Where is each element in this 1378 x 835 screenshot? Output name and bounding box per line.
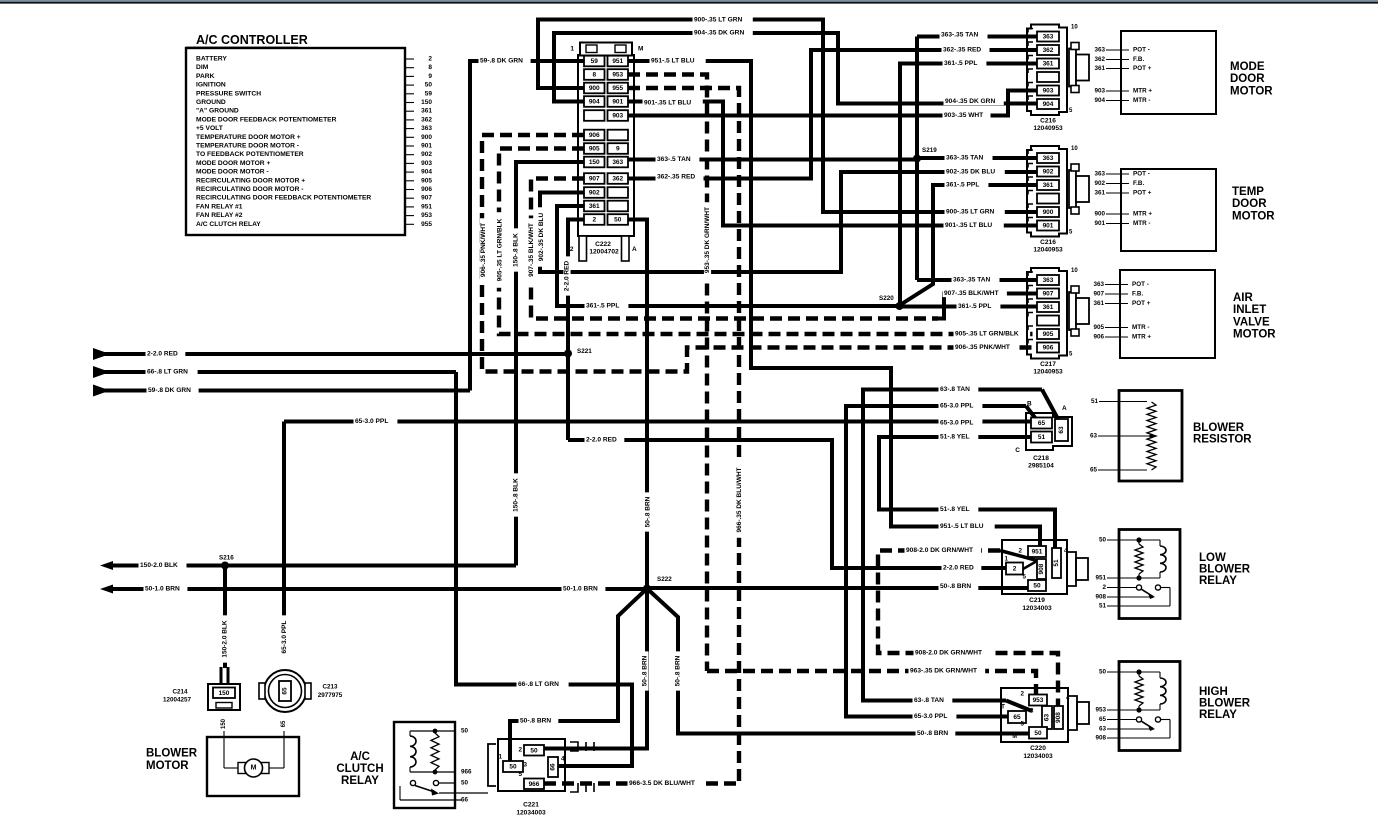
wire label 363-.35 TAN [952, 276, 1000, 283]
svg-text:INLET: INLET [1233, 304, 1266, 316]
svg-text:50: 50 [509, 764, 517, 771]
top blue border bar [0, 0, 1378, 2]
connector C221 pin 50 (2) [524, 745, 544, 756]
wire 906-.35 PNK/WHT dashed C222 to C217 [482, 135, 1039, 372]
svg-text:12040953: 12040953 [1033, 369, 1063, 376]
connector C222 pin row 59/951 [584, 56, 605, 67]
wire 966-.35 DK BLU/WHT dashed from C222 pin 955 [628, 88, 739, 784]
connector C222 pin row 2/50 [584, 214, 605, 225]
svg-text:1: 1 [570, 46, 574, 53]
wire label 362-.35 RED [656, 173, 704, 180]
svg-text:903: 903 [1094, 88, 1105, 95]
svg-text:AIR: AIR [1233, 292, 1254, 304]
wire label 2-2.0 RED [146, 350, 186, 357]
svg-text:966-.35 DK BLU/WHT: 966-.35 DK BLU/WHT [736, 467, 743, 532]
wire label 50-.8 BRN [916, 730, 956, 737]
svg-text:150: 150 [219, 690, 230, 697]
connector C219 pin 2 [1006, 563, 1023, 575]
wire label 905-.35 LT GRN/BLK [954, 330, 1031, 337]
svg-text:HIGH: HIGH [1199, 686, 1228, 698]
wire 953-.35 DK GRN/WHT dashed from C222 pin 953 [628, 75, 707, 672]
svg-text:900-.35 LT GRN: 900-.35 LT GRN [694, 17, 742, 24]
svg-text:A/C CONTROLLER: A/C CONTROLLER [196, 33, 308, 47]
svg-text:65-3.0 PPL: 65-3.0 PPL [281, 621, 288, 654]
svg-text:900: 900 [589, 85, 600, 92]
svg-text:2-2.0 RED: 2-2.0 RED [586, 437, 617, 444]
rotated label 50-.8 BRN [644, 492, 651, 531]
svg-text:12034003: 12034003 [1022, 605, 1052, 612]
low blower relay box [1119, 530, 1180, 619]
svg-text:904-.35 DK GRN: 904-.35 DK GRN [945, 98, 995, 105]
connector C220 pin 65 [1008, 711, 1026, 723]
wire label 65-3.0 PPL [354, 418, 398, 425]
connector C216 (temp) pin 363 [1037, 153, 1059, 163]
connector C216 (temp) housing [1027, 146, 1067, 237]
svg-text:C221: C221 [523, 802, 539, 809]
connector C216 (temp) pin 901 [1037, 221, 1059, 231]
svg-text:361: 361 [1043, 304, 1054, 311]
rotated label 966-.35 DK BLU/WHT [736, 462, 743, 538]
svg-text:363: 363 [1043, 155, 1054, 162]
wire label 2-2.0 RED [585, 436, 625, 443]
A/C Controller box [186, 48, 405, 235]
svg-text:51-.8 YEL: 51-.8 YEL [940, 434, 970, 441]
A/C clutch relay switch [410, 780, 415, 785]
svg-text:F.B.: F.B. [1133, 180, 1144, 187]
svg-text:362: 362 [1043, 47, 1054, 54]
svg-text:907-.35 BLK/WHT: 907-.35 BLK/WHT [528, 223, 535, 277]
wire 150-2.0 BLK (left arrow out) [100, 561, 113, 570]
svg-text:C214: C214 [172, 689, 188, 696]
svg-text:902: 902 [421, 151, 432, 158]
svg-text:907: 907 [421, 195, 432, 202]
svg-text:951: 951 [1032, 549, 1043, 556]
connector C216 (mode) housing [1027, 25, 1067, 116]
rotated label 50-.8 BRN [674, 651, 681, 690]
svg-text:50: 50 [530, 747, 538, 754]
svg-text:2985104: 2985104 [1028, 463, 1054, 470]
svg-text:361: 361 [421, 108, 432, 115]
wire label 906-.35 PNK/WHT [954, 344, 1018, 351]
svg-text:POT +: POT + [1133, 190, 1152, 197]
wire label 51-.8 YEL [939, 506, 979, 513]
connector C216 (mode) pin 903 [1037, 86, 1059, 96]
svg-text:363: 363 [612, 159, 623, 166]
wire label 50-.8 BRN [939, 583, 979, 590]
connector C216 (mode) pin 904 [1037, 99, 1059, 109]
wire 904-.35 DK GRN C222 over the top to mode pin 904 [554, 33, 1039, 104]
A/C clutch relay coil [410, 730, 455, 732]
svg-text:363: 363 [1043, 277, 1054, 284]
low blower relay switch armature [1141, 589, 1153, 597]
svg-text:908-2.0 DK GRN/WHT: 908-2.0 DK GRN/WHT [915, 650, 982, 657]
wire 65 diagonal into C218 pin 65 [1026, 406, 1036, 419]
svg-text:5: 5 [1020, 721, 1024, 728]
svg-text:12040953: 12040953 [1033, 125, 1063, 132]
svg-text:66: 66 [461, 797, 469, 804]
svg-text:MODE DOOR MOTOR -: MODE DOOR MOTOR - [196, 169, 269, 176]
rotated label 50-.8 BRN [641, 651, 648, 690]
wire 63-.8 TAN C218 to C220 [863, 390, 1042, 701]
svg-text:953: 953 [612, 72, 623, 79]
svg-text:50: 50 [614, 217, 622, 224]
connector C216 (mode) pin 362 [1037, 45, 1059, 55]
wire 50-.8 BRN C222 pin 50 down to S222 [628, 220, 647, 590]
wire 361 riser to mode [900, 64, 1039, 307]
svg-text:362-.35 RED: 362-.35 RED [943, 47, 981, 54]
wire 363 trunk S219 vertical [915, 37, 919, 281]
connector C219 mating tabs [1068, 552, 1076, 586]
svg-text:S219: S219 [922, 147, 937, 154]
svg-text:150-2.0 BLK: 150-2.0 BLK [140, 562, 178, 569]
svg-text:905-.35 LT GRN/BLK: 905-.35 LT GRN/BLK [955, 331, 1019, 338]
svg-text:A/C CLUTCH RELAY: A/C CLUTCH RELAY [196, 221, 261, 228]
svg-text:POT -: POT - [1133, 171, 1150, 178]
svg-text:362-.35 RED: 362-.35 RED [657, 174, 695, 181]
svg-text:2-2.0 RED: 2-2.0 RED [943, 565, 974, 572]
rotated label 906-.35 PNK/WHT [480, 218, 487, 281]
svg-text:906: 906 [1093, 334, 1104, 341]
svg-text:906: 906 [589, 132, 600, 139]
connector C217 (air inlet) pin 363 [1037, 275, 1059, 285]
svg-text:361-.5 PPL: 361-.5 PPL [946, 182, 979, 189]
svg-text:150-.8 BLK: 150-.8 BLK [513, 233, 520, 267]
svg-text:955: 955 [421, 221, 432, 228]
A/C clutch relay resistor [431, 733, 439, 770]
svg-text:59-.8 DK GRN: 59-.8 DK GRN [148, 387, 191, 394]
svg-text:MODE: MODE [1230, 61, 1265, 73]
svg-text:12: 12 [566, 246, 574, 253]
svg-text:65: 65 [1099, 716, 1107, 723]
connector C218 pin 65 [1031, 418, 1052, 429]
svg-text:900: 900 [1094, 211, 1105, 218]
svg-text:903: 903 [421, 160, 432, 167]
svg-text:361-.5 PPL: 361-.5 PPL [944, 60, 977, 67]
connector C214 [208, 684, 240, 710]
svg-text:901-.35 LT BLU: 901-.35 LT BLU [644, 100, 691, 107]
svg-text:902: 902 [1094, 180, 1105, 187]
connector C222 pin row 902/ [584, 187, 605, 198]
wire 363 branch to temp [917, 156, 1039, 160]
svg-text:50-.8 BRN: 50-.8 BRN [940, 583, 971, 590]
rotated label 150-2.0 BLK [221, 615, 228, 662]
svg-text:RECIRCULATING DOOR MOTOR -: RECIRCULATING DOOR MOTOR - [196, 186, 304, 193]
high blower relay coil resistor [1135, 676, 1143, 706]
wire label 902-.35 DK BLU [945, 168, 1005, 175]
svg-text:955: 955 [612, 85, 623, 92]
svg-text:905: 905 [1093, 324, 1104, 331]
wire 2-2.0 RED from C222 pin 2 through S221 [568, 220, 584, 441]
svg-text:12040953: 12040953 [1033, 247, 1063, 254]
svg-text:50-.8 BRN: 50-.8 BRN [642, 655, 649, 686]
svg-text:DOOR: DOOR [1232, 198, 1267, 210]
svg-text:IGNITION: IGNITION [196, 82, 226, 89]
wire 908-2.0 DK GRN/WHT dashed C219 to C220 [878, 551, 1058, 708]
svg-text:363: 363 [1094, 47, 1105, 54]
svg-text:900: 900 [421, 134, 432, 141]
svg-text:51: 51 [1099, 603, 1107, 610]
wire 966-3.5 DK BLU/WHT dashed to C221 pin 966 [544, 781, 739, 785]
svg-text:C213: C213 [322, 684, 338, 691]
svg-text:904: 904 [421, 169, 432, 176]
svg-text:"A" GROUND: "A" GROUND [196, 108, 239, 115]
wire diagonal C219 pin2 to 908 [1023, 561, 1037, 569]
svg-text:VALVE: VALVE [1233, 316, 1270, 328]
rotated label 150-.8 BLK [512, 228, 519, 271]
high blower relay switch fixed contact [1155, 717, 1160, 722]
svg-text:951-.5 LT BLU: 951-.5 LT BLU [651, 58, 695, 65]
svg-text:3: 3 [1030, 708, 1034, 715]
wire label 363-.5 TAN [656, 156, 700, 163]
svg-text:50: 50 [1033, 583, 1041, 590]
wire 59-.8 DK GRN riser to C222 [470, 61, 584, 391]
svg-text:906: 906 [1043, 345, 1054, 352]
wire 65-3.0 PPL from C213 up [282, 422, 286, 658]
connector C216 (mode) pin 361 [1037, 59, 1059, 69]
wire label 900-.35 LT GRN [945, 208, 1005, 215]
svg-text:F.B.: F.B. [1132, 291, 1143, 298]
svg-text:59: 59 [425, 90, 433, 97]
svg-text:966: 966 [461, 769, 472, 776]
connector C216 (temp) pin 361 [1037, 180, 1059, 190]
svg-text:C218: C218 [1033, 455, 1049, 462]
low blower relay coil resistor [1135, 544, 1143, 574]
svg-text:901: 901 [612, 99, 623, 106]
svg-text:901: 901 [421, 143, 432, 150]
svg-text:12004257: 12004257 [163, 697, 192, 704]
svg-text:BLOWER: BLOWER [146, 748, 198, 760]
wire 363 branch to mode [917, 35, 1039, 39]
connector C214 wires [220, 667, 223, 684]
wire 900-.35 LT GRN C222 over the top to temp pin 900 [538, 20, 1039, 213]
svg-text:4: 4 [1064, 548, 1068, 555]
connector C218 pin 51 [1031, 432, 1052, 443]
wire label 50-1.0 BRN [144, 585, 188, 592]
svg-text:50-.8 BRN: 50-.8 BRN [917, 730, 948, 737]
svg-text:MTR -: MTR - [1132, 324, 1150, 331]
rotated label 953-.35 DK GRN/WHT [704, 202, 711, 278]
svg-text:363-.35 TAN: 363-.35 TAN [946, 155, 983, 162]
connector C222 pin row 907/362 [584, 173, 605, 184]
wire label 65-3.0 PPL [939, 402, 983, 409]
svg-text:10: 10 [1071, 25, 1078, 31]
svg-text:908-2.0 DK GRN/WHT: 908-2.0 DK GRN/WHT [906, 547, 973, 554]
svg-text:904-.35 DK GRN: 904-.35 DK GRN [694, 30, 744, 37]
connector C222 pin row 906/ [584, 130, 605, 141]
wire label 907-.35 BLK/WHT [943, 290, 1007, 297]
svg-text:9: 9 [428, 73, 432, 80]
svg-text:905: 905 [421, 177, 432, 184]
connector C222 pin row 900/955 [584, 83, 605, 94]
connector C218 housing [1026, 413, 1072, 450]
svg-text:50: 50 [1034, 730, 1042, 737]
wire label 65-3.0 PPL [913, 713, 957, 720]
svg-text:C: C [1015, 447, 1020, 454]
node S219 [913, 155, 921, 163]
wire label 951-.5 LT BLU [650, 57, 706, 64]
svg-text:A/C: A/C [350, 751, 370, 763]
wire 2-2.0 RED feed (right arrow) [93, 348, 110, 360]
wire label 50-.8 BRN [519, 717, 559, 724]
svg-text:C220: C220 [1030, 745, 1046, 752]
rotated label 907-.35 BLK/WHT [528, 218, 535, 281]
wire label 963-.35 DK GRN/WHT [909, 667, 986, 674]
svg-text:966-3.5 DK BLU/WHT: 966-3.5 DK BLU/WHT [629, 780, 695, 787]
svg-text:50-1.0 BRN: 50-1.0 BRN [563, 586, 598, 593]
svg-text:+5 VOLT: +5 VOLT [196, 125, 224, 132]
connector C216 (mode) mating plug [1069, 49, 1076, 87]
low blower relay coil [1139, 539, 1160, 541]
svg-text:908: 908 [1095, 594, 1106, 601]
connector C220 pin 908 [1054, 706, 1063, 729]
wire 907 elbow into C217 [938, 294, 1039, 319]
svg-text:F.B.: F.B. [1133, 56, 1144, 63]
svg-text:10: 10 [1071, 146, 1078, 152]
svg-text:362: 362 [612, 176, 623, 183]
svg-text:BATTERY: BATTERY [196, 56, 227, 63]
connector C222 pin row 904/901 [584, 96, 605, 107]
rotated label 902-.35 DK BLU [538, 207, 545, 266]
connector C217 (air inlet) housing [1027, 268, 1067, 359]
svg-text:2: 2 [518, 747, 522, 754]
svg-text:906: 906 [421, 186, 432, 193]
svg-text:C216: C216 [1040, 118, 1056, 125]
svg-text:TEMPERATURE DOOR MOTOR +: TEMPERATURE DOOR MOTOR + [196, 134, 301, 141]
svg-text:901: 901 [1043, 223, 1054, 230]
wire label 908-2.0 DK GRN/WHT [905, 547, 982, 554]
connector C222 pin row 150/363 [584, 157, 605, 168]
connector C219 pin 50 [1028, 580, 1046, 591]
svg-text:361: 361 [1093, 300, 1104, 307]
svg-text:150: 150 [421, 99, 432, 106]
svg-text:8: 8 [592, 72, 596, 79]
wire 905-.35 LT GRN/BLK dashed C222 to C217 [499, 149, 1039, 335]
svg-text:C222: C222 [595, 241, 611, 248]
svg-text:50: 50 [425, 82, 433, 89]
svg-text:RECIRCULATING DOOR FEEDBACK PO: RECIRCULATING DOOR FEEDBACK POTENTIOMETE… [196, 195, 371, 202]
wire 50-.8 BRN S222 to C219 pin 50 [647, 586, 1030, 590]
svg-text:MTR -: MTR - [1133, 97, 1151, 104]
svg-text:904: 904 [1094, 97, 1105, 104]
svg-text:361: 361 [1043, 182, 1054, 189]
svg-text:361: 361 [1094, 190, 1105, 197]
connector C221 mating tabs [570, 742, 578, 751]
A/C clutch relay 66 pin [399, 786, 401, 800]
wire 361-.5 PPL C222 to S220 [557, 206, 899, 306]
svg-text:363-.35 TAN: 363-.35 TAN [941, 32, 978, 39]
svg-text:DIM: DIM [196, 64, 209, 71]
svg-text:M: M [1012, 734, 1017, 740]
svg-text:905: 905 [589, 146, 600, 153]
node S222 [643, 585, 651, 593]
svg-text:905-.35 LT GRN/BLK: 905-.35 LT GRN/BLK [497, 218, 504, 281]
svg-text:TO FEEDBACK POTENTIOMETER: TO FEEDBACK POTENTIOMETER [196, 151, 304, 158]
svg-text:65: 65 [1038, 420, 1046, 427]
svg-text:65: 65 [282, 687, 289, 695]
svg-text:363: 363 [1043, 34, 1054, 41]
svg-text:907: 907 [589, 176, 600, 183]
svg-text:363-.35 TAN: 363-.35 TAN [953, 277, 990, 284]
svg-text:908: 908 [1095, 735, 1106, 742]
svg-text:903-.35 WHT: 903-.35 WHT [944, 112, 983, 119]
svg-text:951-.5 LT BLU: 951-.5 LT BLU [940, 523, 984, 530]
wire 50-.8 BRN S222 SW arm to C221 pin 1 [510, 589, 647, 763]
connector C216 (temp) pin 902 [1037, 167, 1059, 177]
svg-text:MTR -: MTR - [1133, 220, 1151, 227]
connector C220 pin 63 [1042, 706, 1052, 729]
connector C217 (air inlet) pin 905 [1037, 329, 1059, 339]
svg-text:A: A [1062, 405, 1067, 412]
wire 901-.35 LT BLU C222 to temp pin 901 [628, 102, 1039, 226]
node S216 [221, 562, 229, 570]
svg-text:63: 63 [1044, 714, 1051, 722]
connector C220 pin 953 [1029, 695, 1047, 706]
svg-text:908: 908 [1038, 563, 1045, 574]
svg-text:362: 362 [421, 116, 432, 123]
rotated label 65-3.0 PPL [281, 615, 288, 658]
svg-text:904: 904 [589, 99, 600, 106]
svg-text:GROUND: GROUND [196, 99, 226, 106]
svg-text:953: 953 [1095, 707, 1106, 714]
wire label 66-.8 LT GRN [146, 368, 198, 375]
svg-text:POT +: POT + [1133, 65, 1152, 72]
svg-text:65: 65 [1090, 467, 1098, 474]
connector C221 pin 66 [548, 757, 558, 777]
wire label 63-.8 TAN [913, 697, 953, 704]
connector C216 (temp) pin (blank) [1037, 194, 1059, 204]
svg-text:M: M [251, 765, 257, 772]
svg-text:C217: C217 [1040, 361, 1056, 368]
wire 363 branch to air inlet [917, 278, 1039, 282]
svg-text:951: 951 [421, 203, 432, 210]
svg-text:903: 903 [612, 113, 623, 120]
svg-text:65-3.0 PPL: 65-3.0 PPL [914, 713, 947, 720]
connector C218 pin 63 [1055, 419, 1068, 441]
svg-text:POT -: POT - [1132, 281, 1149, 288]
svg-text:RECIRCULATING DOOR MOTOR +: RECIRCULATING DOOR MOTOR + [196, 177, 305, 184]
svg-text:2: 2 [1013, 566, 1017, 573]
svg-text:66-.8 LT GRN: 66-.8 LT GRN [147, 369, 188, 376]
high blower relay switch armature [1141, 721, 1153, 729]
svg-text:905: 905 [1043, 331, 1054, 338]
svg-text:63-.8 TAN: 63-.8 TAN [940, 386, 970, 393]
svg-text:953-.35 DK GRN/WHT: 953-.35 DK GRN/WHT [704, 207, 711, 273]
svg-text:RELAY: RELAY [1199, 575, 1237, 587]
svg-text:361: 361 [589, 203, 600, 210]
svg-text:902-.35 DK BLU: 902-.35 DK BLU [538, 212, 545, 261]
wire 65-3.0 PPL across to C218 [284, 420, 1032, 424]
wire 908 diagonal into C219 [1000, 551, 1039, 562]
node S221 [564, 350, 572, 358]
svg-text:906-.35 PNK/WHT: 906-.35 PNK/WHT [480, 223, 487, 277]
svg-text:65-3.0 PPL: 65-3.0 PPL [940, 420, 973, 427]
wire label 66-.8 LT GRN [517, 681, 569, 688]
svg-text:951: 951 [1095, 575, 1106, 582]
svg-text:LOW: LOW [1199, 552, 1226, 564]
svg-text:MODE DOOR MOTOR +: MODE DOOR MOTOR + [196, 160, 270, 167]
svg-text:C219: C219 [1029, 597, 1045, 604]
wire label 901-.35 LT BLU [944, 222, 1004, 229]
svg-text:PRESSURE SWITCH: PRESSURE SWITCH [196, 90, 261, 97]
wire label 966-3.5 DK BLU/WHT [628, 780, 705, 787]
wire 51-.8 YEL C218 to C219 pin 51 [879, 437, 1055, 551]
svg-text:2-2.0 RED: 2-2.0 RED [147, 351, 178, 358]
svg-text:9: 9 [616, 146, 620, 153]
svg-text:MTR +: MTR + [1133, 88, 1152, 95]
svg-text:50: 50 [461, 728, 469, 735]
svg-text:363: 363 [1093, 281, 1104, 288]
connector C222 pin row /903 [584, 110, 605, 121]
